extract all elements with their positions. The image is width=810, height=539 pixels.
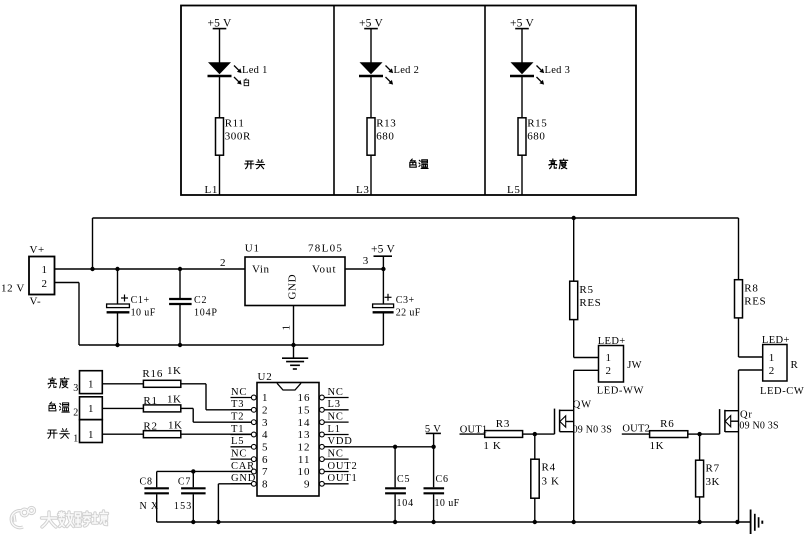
svg-text:14: 14 xyxy=(298,417,311,429)
svg-text:N X: N X xyxy=(140,501,159,512)
svg-text:GND: GND xyxy=(287,274,299,300)
svg-text:2: 2 xyxy=(769,365,775,377)
svg-text:12: 12 xyxy=(298,441,311,453)
svg-text:1K: 1K xyxy=(650,440,664,452)
svg-text:+5 V: +5 V xyxy=(510,17,535,29)
svg-text:10 uF: 10 uF xyxy=(131,307,156,318)
svg-text:1K: 1K xyxy=(168,419,182,431)
svg-text:7: 7 xyxy=(262,466,268,478)
svg-text:NC: NC xyxy=(328,412,344,423)
svg-text:L1: L1 xyxy=(328,424,341,435)
svg-text:09 N0 3S: 09 N0 3S xyxy=(573,424,612,435)
svg-text:NC: NC xyxy=(231,449,247,460)
svg-text:R4: R4 xyxy=(542,461,556,473)
svg-text:10: 10 xyxy=(298,466,311,478)
svg-text:C8: C8 xyxy=(140,477,153,488)
svg-text:VDD: VDD xyxy=(328,436,353,447)
svg-text:3: 3 xyxy=(262,417,268,429)
svg-text:13: 13 xyxy=(298,429,311,441)
svg-text:5 V: 5 V xyxy=(425,424,441,435)
svg-text:NC: NC xyxy=(328,449,344,460)
svg-text:NC: NC xyxy=(231,387,247,398)
svg-text:Vin: Vin xyxy=(252,264,270,276)
svg-text:T3: T3 xyxy=(231,399,244,410)
svg-text:78L05: 78L05 xyxy=(308,243,343,255)
svg-text:1: 1 xyxy=(769,352,775,364)
svg-text:1: 1 xyxy=(281,325,293,331)
svg-text:1K: 1K xyxy=(167,365,181,377)
svg-text:R8: R8 xyxy=(744,283,758,295)
svg-text:2: 2 xyxy=(220,257,226,269)
svg-text:2: 2 xyxy=(606,365,612,377)
svg-text:15: 15 xyxy=(298,404,311,416)
svg-text:T2: T2 xyxy=(231,412,244,423)
svg-text:JW: JW xyxy=(627,360,642,371)
svg-text:1K: 1K xyxy=(167,394,181,406)
svg-text:2: 2 xyxy=(41,278,47,290)
svg-text:+5 V: +5 V xyxy=(207,17,232,29)
svg-text:3: 3 xyxy=(363,255,369,267)
svg-text:L3: L3 xyxy=(356,184,369,196)
svg-text:1: 1 xyxy=(88,379,94,391)
svg-text:1: 1 xyxy=(262,392,268,404)
svg-text:8: 8 xyxy=(262,478,268,490)
svg-text:6: 6 xyxy=(262,454,268,466)
svg-text:L5: L5 xyxy=(231,436,244,447)
svg-text:OUT2: OUT2 xyxy=(328,461,358,472)
svg-text:R16: R16 xyxy=(142,368,163,380)
svg-text:16: 16 xyxy=(298,392,311,404)
svg-text:11: 11 xyxy=(298,454,311,466)
svg-text:3K: 3K xyxy=(706,476,720,488)
svg-text:R1: R1 xyxy=(143,395,157,407)
svg-text:22 uF: 22 uF xyxy=(396,307,421,318)
svg-text:LED-CW: LED-CW xyxy=(760,386,804,397)
svg-text:104P: 104P xyxy=(194,307,218,318)
svg-text:680: 680 xyxy=(376,130,394,142)
svg-text:RES: RES xyxy=(579,297,601,309)
svg-text:C1+: C1+ xyxy=(131,295,150,306)
svg-text:1: 1 xyxy=(88,429,94,441)
svg-text:LED+: LED+ xyxy=(762,335,790,346)
svg-text:+5 V: +5 V xyxy=(371,243,396,255)
svg-text:104: 104 xyxy=(397,498,414,509)
svg-text:R3: R3 xyxy=(496,418,510,430)
svg-text:V-: V- xyxy=(30,295,42,307)
svg-text:L1: L1 xyxy=(205,184,218,196)
svg-text:OUT1: OUT1 xyxy=(328,473,358,484)
svg-text:R: R xyxy=(791,359,799,371)
svg-text:C7: C7 xyxy=(178,477,191,488)
svg-text:C6: C6 xyxy=(436,474,449,485)
svg-text:U2: U2 xyxy=(258,371,273,383)
svg-text:L5: L5 xyxy=(507,184,520,196)
svg-text:+5 V: +5 V xyxy=(359,17,384,29)
svg-text:LED-WW: LED-WW xyxy=(597,386,644,397)
svg-text:CAR: CAR xyxy=(231,461,255,472)
svg-text:1: 1 xyxy=(73,433,79,444)
svg-text:3: 3 xyxy=(73,383,79,394)
svg-text:V+: V+ xyxy=(30,244,45,256)
svg-text:C2: C2 xyxy=(194,295,207,306)
svg-text:4: 4 xyxy=(262,429,268,441)
svg-text:153: 153 xyxy=(174,501,193,512)
svg-text:680: 680 xyxy=(527,130,545,142)
svg-text:300R: 300R xyxy=(225,130,251,142)
svg-text:1: 1 xyxy=(606,352,612,364)
svg-text:R7: R7 xyxy=(706,463,720,475)
svg-text:Vout: Vout xyxy=(312,264,337,276)
svg-text:5: 5 xyxy=(262,441,268,453)
svg-text:10 uF: 10 uF xyxy=(435,498,460,509)
svg-text:U1: U1 xyxy=(245,243,260,255)
svg-text:C3+: C3+ xyxy=(396,295,415,306)
svg-text:2: 2 xyxy=(262,404,268,416)
svg-text:2: 2 xyxy=(73,408,79,419)
svg-text:R15: R15 xyxy=(527,117,547,129)
svg-text:Qr: Qr xyxy=(740,410,753,421)
svg-text:R5: R5 xyxy=(579,284,593,296)
svg-text:C5: C5 xyxy=(397,474,410,485)
svg-text:12 V: 12 V xyxy=(1,282,25,294)
svg-text:RES: RES xyxy=(744,295,766,307)
svg-text:NC: NC xyxy=(328,387,344,398)
svg-text:R11: R11 xyxy=(225,117,245,129)
svg-text:T1: T1 xyxy=(231,424,244,435)
svg-text:L3: L3 xyxy=(328,399,341,410)
svg-text:R6: R6 xyxy=(660,418,674,430)
svg-text:3 K: 3 K xyxy=(542,475,560,487)
svg-text:GND: GND xyxy=(231,473,256,484)
svg-text:1: 1 xyxy=(41,264,47,276)
svg-text:LED+: LED+ xyxy=(598,336,626,347)
svg-text:Led 3: Led 3 xyxy=(545,65,571,76)
svg-text:1 K: 1 K xyxy=(483,440,501,452)
svg-text:OUT2: OUT2 xyxy=(622,424,650,435)
svg-text:QW: QW xyxy=(573,399,592,410)
svg-text:9: 9 xyxy=(304,478,311,490)
svg-text:Led 2: Led 2 xyxy=(394,65,420,76)
svg-text:R2: R2 xyxy=(143,421,157,433)
svg-text:09 N0 3S: 09 N0 3S xyxy=(739,420,778,431)
svg-text:R13: R13 xyxy=(376,117,396,129)
svg-text:Led 1: Led 1 xyxy=(242,65,268,76)
svg-text:1: 1 xyxy=(88,403,94,415)
